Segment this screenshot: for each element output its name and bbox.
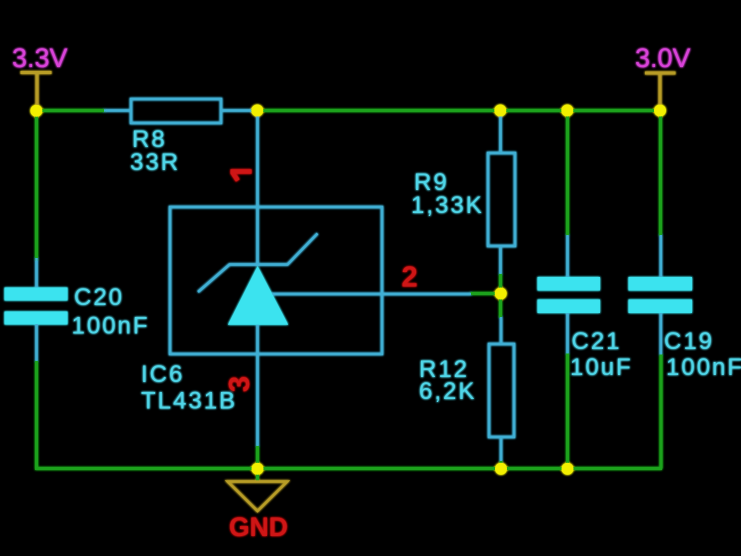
node A junction 3.3V rail: [30, 105, 42, 117]
svg-text:C21: C21: [572, 328, 622, 355]
wire R9 to node stub: [499, 273, 502, 293]
IC6 pin 3 lead (anode): [256, 325, 259, 446]
svg-text:3.3V: 3.3V: [12, 43, 68, 73]
node junction 3.0V rail: [654, 105, 666, 117]
resistor R8: [104, 99, 253, 123]
svg-text:IC6: IC6: [141, 361, 184, 388]
capacitor C20: [5, 258, 68, 361]
node junction R9 top: [494, 105, 506, 117]
wire C19 branch bottom vertical: [660, 354, 663, 469]
resistor R12: [489, 317, 514, 461]
IC6 shunt regulator body box: [170, 207, 382, 354]
svg-text:100nF: 100nF: [72, 313, 150, 340]
node junction C21 bottom: [562, 463, 574, 475]
svg-text:3.0V: 3.0V: [635, 43, 691, 73]
svg-text:TL431B: TL431B: [141, 388, 237, 415]
svg-text:GND: GND: [229, 512, 288, 542]
power supply symbol 3.0V: [645, 73, 676, 107]
IC6 cathode bar: [198, 234, 318, 293]
wire node to R12 stub: [499, 293, 502, 318]
wire C21 branch top vertical: [566, 111, 569, 237]
svg-text:33R: 33R: [130, 149, 180, 176]
resistor R9: [488, 112, 515, 274]
svg-text:2: 2: [402, 262, 418, 294]
wire left rail vertical: [35, 111, 38, 262]
wire R12 bottom stub: [500, 460, 503, 469]
svg-text:10uF: 10uF: [570, 354, 633, 381]
wire left rail lower vertical: [35, 360, 38, 470]
svg-text:100nF: 100nF: [666, 354, 741, 381]
svg-text:C19: C19: [664, 328, 714, 355]
power supply symbol 3.3V: [21, 73, 52, 108]
node junction R12 bottom: [495, 463, 507, 475]
svg-text:3: 3: [224, 376, 256, 392]
pin number 1: [231, 172, 252, 181]
capacitor C21: [538, 235, 601, 354]
capacitor C19: [629, 235, 693, 355]
wire GND stub: [256, 469, 259, 483]
IC6 pin 2 lead (reference): [262, 293, 471, 296]
wire IC6 pin2 to node stub: [470, 292, 497, 295]
node junction R8 right / IC6 pin1: [251, 105, 263, 117]
wire C19 branch top vertical: [659, 111, 662, 237]
IC6 TL431 anode triangle: [228, 266, 288, 325]
svg-text:1,33K: 1,33K: [411, 192, 484, 219]
IC6 pin 1 lead (cathode): [256, 112, 259, 266]
wire IC6 pin3 bottom stub: [256, 445, 259, 469]
wire bottom rail: [35, 467, 662, 470]
node junction GND center: [252, 463, 264, 475]
node junction C21 top: [561, 105, 573, 117]
svg-text:6,2K: 6,2K: [419, 378, 476, 405]
wire top rail right segment: [251, 109, 661, 112]
wire top rail left segment: [36, 109, 106, 112]
wire C21 branch bottom vertical: [566, 353, 569, 469]
svg-text:C20: C20: [74, 284, 124, 311]
ground symbol: [228, 482, 288, 512]
node junction reference divider: [495, 288, 507, 300]
